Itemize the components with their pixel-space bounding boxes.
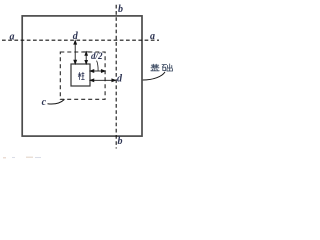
svg-text:b: b	[118, 136, 123, 147]
faint remnants of caption text at bottom	[3, 156, 41, 159]
svg-text:a: a	[150, 31, 155, 42]
svg-text:c: c	[42, 97, 47, 108]
section line a-a (horizontal dashed)	[2, 39, 159, 41]
critical section perimeter (dashed rect)	[60, 52, 105, 99]
dimension d/2 (vertical, from perimeter top to column top)	[83, 52, 91, 64]
dimension d (horizontal, column face to b-b line)	[90, 79, 115, 82]
leader from d/2 to horizontal gap arrow	[97, 61, 99, 71]
foundation outline (outer square)	[22, 16, 142, 136]
svg-text:a: a	[10, 31, 15, 42]
leader from 基础 to foundation edge	[143, 72, 165, 80]
svg-text:b: b	[118, 4, 123, 15]
section line b-b (vertical dashed)	[115, 5, 117, 149]
svg-text:d/2: d/2	[91, 51, 103, 61]
label 基础 (foundation)	[151, 64, 173, 71]
leader from c to perimeter	[48, 99, 65, 104]
column text 柱	[78, 72, 84, 79]
dimension d/2 (horizontal, column face to perimeter)	[90, 70, 105, 73]
column outline	[71, 64, 90, 86]
dimension d (vertical, from a-a line to column top)	[74, 41, 77, 64]
